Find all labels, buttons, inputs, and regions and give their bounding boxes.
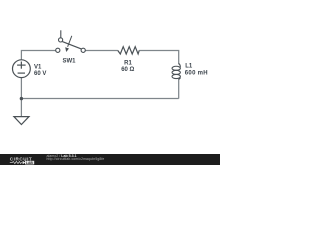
- footer text line 1: [47, 154, 77, 158]
- wire resistor to top-right corner: [139, 51, 179, 65]
- wire V1 bottom to junction: [20, 78, 22, 99]
- wire switch to resistor: [85, 50, 117, 52]
- label 600 mH: [185, 70, 208, 76]
- footer bar: [0, 154, 220, 165]
- svg-text:LAB: LAB: [26, 161, 34, 165]
- svg-text:R1: R1: [124, 60, 132, 66]
- wire bottom horizontal: [21, 98, 178, 100]
- svg-text:http://circuitlab.com/c2maqubr: http://circuitlab.com/c2maqubr5g8fe: [47, 157, 105, 161]
- ground: [14, 117, 29, 125]
- svg-text:600 mH: 600 mH: [185, 70, 208, 76]
- label SW1: [62, 59, 76, 65]
- label V1: [34, 65, 42, 71]
- svg-text:60 Ω: 60 Ω: [121, 67, 134, 73]
- label L1: [185, 64, 193, 70]
- svg-text:60 V: 60 V: [34, 71, 46, 77]
- footer logo resistor squiggle: [10, 161, 22, 163]
- resistor R1: [118, 47, 140, 54]
- svg-text:L1: L1: [185, 64, 193, 70]
- footer logo LAB box: [23, 161, 35, 165]
- inductor L1: [172, 64, 180, 80]
- svg-text:V1: V1: [34, 65, 42, 71]
- wire top-left horizontal: [21, 51, 55, 60]
- footer text line 2: [47, 157, 105, 161]
- wire junction to ground: [20, 99, 22, 117]
- wire inductor bottom to corner: [178, 79, 180, 99]
- node junction dot: [20, 97, 23, 100]
- switch SW1: [56, 30, 86, 52]
- footer logo CIRCUIT: [10, 157, 32, 162]
- voltage source V1: [13, 60, 31, 78]
- label R1: [124, 60, 132, 66]
- label 60 ohm: [121, 67, 134, 73]
- label 60 V: [34, 71, 46, 77]
- svg-text:SW1: SW1: [62, 59, 76, 65]
